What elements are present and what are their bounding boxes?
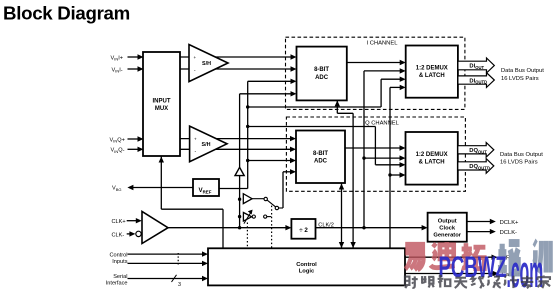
svg-text:Output: Output (438, 218, 457, 224)
1:2 demux and latch Q (406, 132, 458, 185)
svg-text:÷ 2: ÷ 2 (299, 227, 308, 234)
svg-text:1:2 DEMUX: 1:2 DEMUX (416, 152, 448, 158)
8-bit ADC Q (296, 131, 345, 184)
label VIN I- (112, 67, 123, 73)
svg-text:ADC: ADC (314, 159, 328, 165)
wire ADC I sample clock (335, 100, 356, 248)
1:2 demux and latch I (406, 46, 458, 98)
svg-text:S/H: S/H (202, 61, 211, 67)
wire ADC Q output bus to Q demux (345, 145, 406, 150)
label DCLK- (500, 230, 517, 236)
label CLK/2 (318, 222, 334, 228)
watermark blue PCBWZ.com (439, 247, 544, 291)
svg-text:Control: Control (296, 262, 317, 268)
watermark slate char xun (533, 241, 550, 273)
svg-text:Clock: Clock (439, 225, 456, 231)
watermark red char di (431, 242, 455, 268)
label VIN I+ (111, 55, 124, 61)
8-bit ADC I (297, 47, 347, 101)
label OR (502, 256, 511, 262)
watermark gray char she (405, 276, 418, 288)
wire S/H I to ADC I line 1 (180, 54, 297, 59)
svg-text:Logic: Logic (299, 268, 315, 274)
wire S/H I to ADC I line 2 (180, 66, 297, 71)
switch S2 open contact (252, 215, 271, 218)
watermark red char yi (405, 244, 423, 270)
svg-text:CLK/2: CLK/2 (318, 222, 334, 228)
wire CLK/2 divider output to output clock generator (316, 225, 428, 230)
wire serial interface input with bus slash 3 (128, 275, 209, 288)
watermark red char tuo (462, 243, 486, 269)
wire OR output (405, 255, 498, 260)
svg-text:DIOUT: DIOUT (469, 64, 484, 70)
svg-text:VINQ-: VINQ- (111, 148, 125, 154)
svg-text:DCLK+: DCLK+ (500, 220, 519, 226)
wire master clock line to divider (168, 225, 291, 230)
svg-text:Serial: Serial (113, 274, 127, 280)
bus arrow DI OUT (458, 58, 494, 73)
title text (3, 3, 130, 24)
label Control Inputs (109, 252, 127, 265)
svg-text:8-BIT: 8-BIT (314, 67, 329, 73)
S/H amplifier I (189, 45, 228, 82)
wire mux select from control logic (159, 157, 223, 249)
bus arrow DQ OUTD (458, 159, 494, 174)
wire CLK- input (127, 231, 142, 236)
Q channel dashed boundary (286, 117, 465, 191)
wire ADC Q input 4 from clock switch (283, 169, 296, 208)
wire DCLK+ output (467, 219, 496, 224)
svg-text:-: - (195, 149, 197, 155)
wire VIN Q- input (128, 147, 144, 152)
watermark gray char pin (421, 276, 434, 287)
output clock generator (428, 213, 467, 242)
svg-text:DQOUT: DQOUT (469, 148, 487, 154)
svg-text:ADC: ADC (315, 75, 329, 81)
svg-text:Block Diagram: Block Diagram (3, 3, 130, 24)
wire CalRun output (405, 271, 499, 276)
watermark gray char tian (454, 278, 467, 288)
label VBG (112, 186, 122, 192)
svg-text:Data Bus Output: Data Bus Output (501, 68, 544, 74)
watermark gray char zhuan (521, 276, 533, 288)
svg-text:Inputs: Inputs (112, 259, 127, 265)
caption data bus output Q (500, 152, 543, 166)
wire VBG bandgap output (127, 185, 193, 190)
wire ADC I input 4 from clock buffer (238, 91, 297, 229)
svg-text:& LATCH: & LATCH (419, 160, 445, 166)
reference buffer triangle up (235, 167, 244, 175)
wire VIN I- input (128, 66, 144, 71)
label CLK- (112, 232, 125, 238)
svg-text:DCLK-: DCLK- (500, 230, 517, 236)
label VIN Q- (111, 148, 125, 154)
label Serial Interface (106, 274, 128, 287)
wire ADC Q input 3 from reference node (248, 158, 296, 163)
wire VREF to reference ladder (219, 188, 248, 190)
watermark gray char xian (471, 276, 484, 288)
watermark slate char pei (498, 239, 520, 272)
wire node to Q demux input 3 (248, 127, 406, 168)
svg-text:DIOUTD: DIOUTD (469, 78, 487, 84)
watermark gray char she2 (487, 276, 501, 287)
dotted control line to delay adjust buffer (246, 223, 248, 249)
wire ADC I output bus to I demux (347, 60, 406, 65)
svg-text:16 LVDS Pairs: 16 LVDS Pairs (501, 76, 539, 82)
bus arrow DI OUTD (458, 73, 494, 88)
wire CLK+ input (127, 218, 142, 223)
divide by 2 box (291, 219, 315, 239)
wire latch control riser to demux input 4 of both channels (388, 85, 405, 249)
variable delay buffer B2 (243, 210, 252, 224)
svg-text:Generator: Generator (433, 232, 461, 238)
label CalRun (502, 272, 521, 278)
svg-text:VINQ+: VINQ+ (110, 137, 125, 143)
ellipsis dots between control inputs (177, 253, 179, 265)
wire node to I demux input 3 (248, 77, 406, 108)
svg-text:& LATCH: & LATCH (419, 73, 445, 79)
wire S/H Q to ADC Q line 1 (180, 136, 296, 141)
svg-text:VINI-: VINI- (112, 67, 123, 73)
S/H amplifier Q (190, 126, 227, 162)
svg-text:+: + (194, 137, 197, 142)
wire clk/2 riser to demux input 2 of both channels (362, 68, 405, 229)
control logic box (208, 248, 405, 285)
bus arrow DQ OUT (458, 143, 494, 158)
wire VIN Q+ input (128, 136, 144, 141)
watermark gray char jia (537, 275, 550, 288)
dotted control line to clock select switch (271, 206, 273, 249)
wire control input 2 (128, 261, 209, 266)
svg-text:VINI+: VINI+ (111, 55, 124, 61)
input mux U1 (143, 52, 180, 156)
svg-text:Interface: Interface (106, 280, 128, 286)
svg-text:Q CHANNEL: Q CHANNEL (365, 120, 400, 126)
svg-text:Data Bus Output: Data Bus Output (500, 152, 543, 158)
svg-text:8-BIT: 8-BIT (313, 151, 328, 157)
svg-text:DQOUTD: DQOUTD (469, 164, 490, 170)
label CLK+ (112, 219, 126, 225)
svg-text:VBG: VBG (112, 186, 122, 192)
clock buffer B1 (243, 194, 263, 204)
svg-text:I CHANNEL: I CHANNEL (367, 41, 399, 47)
label DCLK+ (500, 220, 519, 226)
svg-text:+: + (193, 55, 196, 60)
svg-text:CLK-: CLK- (112, 232, 125, 238)
svg-text:1:2 DEMUX: 1:2 DEMUX (416, 65, 448, 71)
wire VIN I+ input (128, 54, 144, 59)
wire S/H Q to ADC Q line 2 (180, 147, 296, 152)
svg-text:CLK+: CLK+ (112, 219, 126, 225)
svg-text:3: 3 (178, 282, 181, 288)
svg-text:MUX: MUX (155, 106, 168, 112)
svg-text:16 LVDS Pairs: 16 LVDS Pairs (500, 160, 538, 166)
watermark gray char he (438, 275, 451, 287)
caption data bus output I (501, 68, 544, 82)
wire control input 1 (128, 251, 209, 256)
svg-text:S/H: S/H (202, 142, 211, 148)
wire DCLK- output (467, 229, 496, 234)
label VIN Q+ (110, 137, 125, 143)
watermark gray char ji (504, 276, 518, 288)
VREF box (193, 179, 219, 196)
svg-text:Control: Control (109, 252, 127, 258)
I channel dashed boundary (286, 37, 465, 109)
svg-text:-: - (194, 68, 196, 74)
switch S1 clock select (264, 197, 283, 209)
svg-text:INPUT: INPUT (153, 99, 171, 105)
wire ADC Q sample clock (339, 184, 344, 249)
clock input buffer (142, 212, 168, 244)
wire ADC I input 3 from reference node (246, 79, 297, 189)
